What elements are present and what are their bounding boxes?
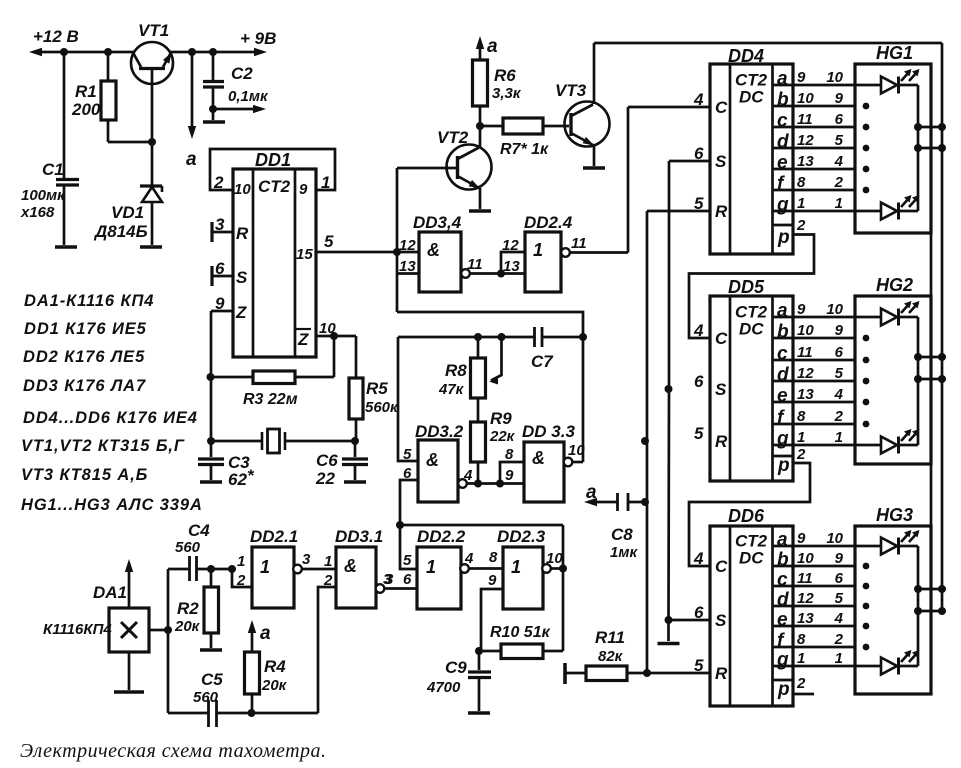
svg-text:13: 13 — [797, 386, 814, 403]
svg-text:4: 4 — [464, 550, 474, 567]
svg-text:Д814Б: Д814Б — [93, 222, 148, 241]
svg-text:HG3: HG3 — [876, 505, 913, 525]
svg-text:12: 12 — [797, 132, 814, 149]
svg-text:9: 9 — [797, 69, 806, 86]
capacitor C9 — [478, 651, 481, 670]
svg-text:R5: R5 — [366, 379, 388, 398]
svg-text:CT2: CT2 — [258, 177, 291, 196]
svg-text:p: p — [777, 455, 790, 476]
node wiper tap — [498, 333, 506, 341]
node C1 tap — [60, 48, 68, 56]
svg-text:DC: DC — [739, 549, 764, 568]
svg-text:DD2 К176 ЛЕ5: DD2 К176 ЛЕ5 — [23, 348, 145, 366]
IC DD1 outline — [233, 169, 316, 357]
svg-text:9: 9 — [797, 301, 806, 318]
svg-text:9: 9 — [505, 467, 514, 484]
svg-text:b: b — [777, 90, 789, 111]
svg-text:R7* 1к: R7* 1к — [500, 141, 549, 158]
svg-text:R4: R4 — [264, 657, 286, 676]
svg-text:DD 3.3: DD 3.3 — [522, 422, 575, 441]
resistor R4 — [245, 652, 260, 694]
svg-text:5: 5 — [403, 446, 412, 463]
svg-text:12: 12 — [399, 237, 416, 254]
svg-text:e: e — [777, 153, 788, 174]
wire R bus — [646, 211, 649, 673]
svg-text:9: 9 — [488, 572, 497, 589]
resistor R5 — [349, 378, 363, 419]
capacitor C2 — [212, 52, 215, 80]
node C2 out — [209, 105, 217, 113]
wire right supply bus — [941, 43, 944, 611]
svg-text:+ 9В: + 9В — [240, 29, 276, 48]
wire DD2.1 pin2 tie — [232, 569, 252, 587]
svg-text:1: 1 — [835, 429, 843, 446]
svg-text:10: 10 — [797, 322, 814, 339]
capacitor C4 — [168, 568, 189, 571]
ground C1 — [55, 245, 77, 249]
gate DD2.3 output — [542, 564, 551, 573]
ground C6 — [344, 480, 366, 484]
svg-text:1мк: 1мк — [610, 544, 638, 561]
svg-text:2: 2 — [796, 675, 806, 692]
wire DD2.3 pin9 — [481, 589, 503, 651]
svg-text:6: 6 — [694, 372, 704, 391]
svg-text:47к: 47к — [438, 381, 465, 398]
svg-text:&: & — [344, 556, 357, 576]
svg-text:1: 1 — [511, 557, 521, 577]
svg-text:8: 8 — [505, 446, 514, 463]
svg-text:4: 4 — [834, 386, 844, 403]
wire feedback line y525 — [400, 524, 563, 527]
svg-text:62: 62 — [228, 470, 247, 489]
svg-text:C: C — [715, 98, 728, 117]
wire DD4 S pin — [669, 160, 710, 163]
node R2 top — [207, 565, 215, 573]
svg-text:82к: 82к — [598, 648, 624, 665]
svg-text:560: 560 — [175, 539, 201, 556]
svg-text:1: 1 — [797, 195, 805, 212]
svg-text:1: 1 — [237, 553, 245, 570]
svg-text:a: a — [777, 530, 788, 551]
svg-text:DC: DC — [739, 88, 764, 107]
ground C3 — [200, 480, 222, 484]
svg-text:9: 9 — [835, 550, 844, 567]
gate DD3.4 output — [461, 269, 470, 278]
ground VD1 — [140, 245, 162, 249]
svg-text:4700: 4700 — [426, 679, 461, 696]
svg-text:VT3: VT3 — [555, 81, 587, 100]
svg-text:1: 1 — [797, 650, 805, 667]
svg-text:12: 12 — [797, 365, 814, 382]
gate DD2.4 — [525, 232, 561, 292]
svg-text:8: 8 — [489, 549, 498, 566]
svg-text:a: a — [186, 149, 197, 170]
wire DD4 carry p to DD5 C — [689, 235, 814, 339]
wire +12V rail with arrow — [29, 48, 42, 56]
svg-text:9: 9 — [215, 294, 225, 313]
svg-text:R2: R2 — [177, 599, 199, 618]
svg-text:4: 4 — [693, 321, 704, 340]
wire DD1 pin15 to DD3.4 — [316, 251, 419, 254]
IC DD6 counter — [710, 526, 793, 706]
svg-text:d: d — [777, 590, 789, 611]
svg-text:C: C — [715, 557, 728, 576]
wire DD4 R pin — [647, 210, 710, 213]
svg-text:e: e — [777, 386, 788, 407]
svg-text:S: S — [715, 380, 727, 399]
svg-text:DD2.4: DD2.4 — [524, 213, 573, 232]
svg-text:4: 4 — [693, 549, 704, 568]
svg-text:1: 1 — [835, 195, 843, 212]
ground S bus — [658, 642, 680, 646]
svg-text:К1116КП4: К1116КП4 — [43, 621, 112, 638]
svg-text:11: 11 — [467, 256, 483, 273]
svg-text:a: a — [777, 301, 788, 322]
ground VT2 — [469, 209, 491, 213]
svg-text:10: 10 — [546, 550, 563, 567]
ground C2 — [203, 120, 225, 124]
svg-text:R9: R9 — [490, 409, 512, 428]
svg-text:5: 5 — [694, 656, 704, 675]
svg-text:11: 11 — [797, 111, 813, 128]
svg-text:13: 13 — [797, 610, 814, 627]
svg-text:20к: 20к — [174, 618, 201, 635]
wire DD4 C pin — [628, 106, 710, 109]
svg-text:5: 5 — [835, 590, 844, 607]
resistor R2 — [210, 569, 213, 587]
svg-text:6: 6 — [835, 111, 844, 128]
gate DD3.3 — [524, 442, 564, 502]
svg-text:11: 11 — [797, 570, 813, 587]
svg-text:Z: Z — [235, 303, 247, 322]
svg-text:2: 2 — [796, 217, 806, 234]
svg-text:R6: R6 — [494, 66, 516, 85]
wire DD2.3 out down — [562, 569, 565, 652]
svg-text:2: 2 — [834, 631, 844, 648]
svg-text:R11: R11 — [595, 628, 625, 647]
svg-text:3,3к: 3,3к — [492, 85, 522, 102]
wire DD5 R junction — [641, 437, 649, 445]
svg-text:g: g — [776, 429, 789, 450]
svg-text:c: c — [777, 111, 788, 132]
wire top +supply from VT3 — [594, 42, 942, 45]
svg-text:C7: C7 — [531, 352, 554, 371]
svg-text:g: g — [776, 650, 789, 671]
display HG1 — [855, 64, 931, 233]
resistor R8 trimmer — [477, 337, 480, 358]
svg-text:VT1: VT1 — [138, 21, 169, 40]
gate DD2.1 output — [293, 565, 302, 574]
wire Zbar out — [316, 335, 356, 338]
svg-text:11: 11 — [571, 235, 587, 252]
svg-text:22к: 22к — [489, 428, 516, 445]
svg-text:C6: C6 — [316, 451, 338, 470]
gate DD2.2 — [417, 547, 461, 609]
svg-text:200: 200 — [71, 100, 101, 119]
svg-text:DD2.1: DD2.1 — [250, 527, 298, 546]
svg-text:5: 5 — [403, 552, 412, 569]
gate DD3.2 output — [458, 479, 467, 488]
wire R1 to VT1 base — [108, 141, 152, 144]
svg-text:C5: C5 — [201, 670, 223, 689]
svg-text:10: 10 — [797, 90, 814, 107]
svg-text:&: & — [532, 448, 545, 468]
svg-text:Z: Z — [297, 330, 309, 349]
wire DD6 p stub — [793, 693, 814, 696]
svg-text:S: S — [715, 611, 727, 630]
svg-text:5: 5 — [694, 424, 704, 443]
wire VT2 base — [397, 167, 456, 170]
svg-text:HG1...HG3 АЛС 339А: HG1...HG3 АЛС 339А — [21, 496, 203, 514]
capacitor C8 with net a arrow — [584, 498, 597, 506]
IC DD5 counter — [710, 296, 793, 481]
gate DD3.2 — [418, 440, 458, 502]
gate DD3.1 — [336, 547, 376, 608]
svg-text:DA1: DA1 — [93, 583, 127, 602]
resistor R1 — [107, 52, 110, 81]
wire S bus — [668, 161, 671, 389]
multiplier DA1 — [109, 608, 149, 652]
svg-text:1: 1 — [835, 650, 843, 667]
wire DD2.4 out up to DD4 C — [627, 107, 630, 253]
svg-text:22: 22 — [315, 469, 335, 488]
svg-text:VT1,VT2 КТ315 Б,Г: VT1,VT2 КТ315 Б,Г — [21, 437, 185, 455]
svg-text:6: 6 — [835, 570, 844, 587]
svg-text:1: 1 — [321, 173, 330, 192]
svg-text:1: 1 — [533, 240, 543, 260]
svg-text:a: a — [260, 623, 271, 644]
svg-text:10: 10 — [826, 301, 843, 318]
svg-text:a: a — [777, 69, 788, 90]
svg-text:C2: C2 — [231, 64, 253, 83]
transistor VT1 — [131, 42, 173, 84]
svg-text:R: R — [715, 664, 728, 683]
wire DD3.4 pin13 — [397, 272, 419, 275]
svg-text:DD5: DD5 — [728, 277, 765, 297]
wire DD6 S pin — [669, 619, 711, 622]
svg-text:p: p — [777, 227, 790, 248]
svg-text:10: 10 — [826, 530, 843, 547]
svg-text:e: e — [777, 610, 788, 631]
svg-text:1: 1 — [426, 557, 436, 577]
svg-text:0,1мк: 0,1мк — [228, 88, 269, 105]
svg-text:8: 8 — [797, 631, 806, 648]
node R6-R7-VT2 — [476, 122, 484, 130]
svg-text:DD3,4: DD3,4 — [413, 213, 462, 232]
resistor R11 — [563, 663, 567, 684]
svg-text:13: 13 — [797, 153, 814, 170]
wire DD5 carry p to DD6 C — [689, 463, 810, 566]
svg-text:3: 3 — [385, 571, 394, 588]
svg-text:3: 3 — [302, 551, 311, 568]
svg-text:2: 2 — [236, 572, 246, 589]
svg-text:9: 9 — [797, 530, 806, 547]
svg-text:R3 22м: R3 22м — [243, 391, 298, 408]
wire line A — [397, 312, 583, 337]
svg-text:6: 6 — [835, 344, 844, 361]
svg-text:DD2.2: DD2.2 — [417, 527, 466, 546]
wire C2 arrow out — [213, 108, 262, 111]
svg-text:100мк: 100мк — [21, 187, 66, 204]
wire DA1 down — [128, 652, 131, 690]
svg-text:HG1: HG1 — [876, 43, 913, 63]
node a-branch — [188, 48, 196, 56]
wire DD3.3 pin8 tie — [500, 462, 524, 484]
wire display common bus — [930, 233, 933, 296]
svg-text:6: 6 — [403, 465, 412, 482]
svg-text:9: 9 — [835, 90, 844, 107]
svg-text:2: 2 — [834, 408, 844, 425]
node R8 top — [474, 333, 482, 341]
pin 9 Z input — [211, 310, 233, 313]
transistor VT3 — [565, 102, 610, 147]
pin 6 S input — [210, 266, 213, 286]
svg-text:DD3.1: DD3.1 — [335, 527, 383, 546]
svg-text:8: 8 — [797, 174, 806, 191]
svg-text:12: 12 — [502, 237, 519, 254]
svg-text:DD6: DD6 — [728, 506, 765, 526]
capacitor C5 — [207, 700, 210, 727]
capacitor C3 — [210, 441, 213, 457]
wire line B — [398, 337, 534, 461]
svg-text:HG2: HG2 — [876, 275, 913, 295]
capacitor C1 — [63, 52, 66, 178]
svg-text:Электрическая схема тахометр: Электрическая схема тахометра. — [20, 740, 327, 762]
wire DD3.1 pin2 — [318, 587, 336, 713]
wire DD2.4 pin12 — [501, 252, 525, 274]
wire Zbar to R5 — [355, 336, 358, 378]
svg-text:560к: 560к — [365, 399, 399, 416]
svg-text:10: 10 — [234, 181, 251, 198]
svg-text:DD4: DD4 — [728, 46, 764, 66]
svg-text:R: R — [236, 224, 249, 243]
gate DD3.1 output — [376, 584, 385, 593]
net arrow DA1 input — [128, 563, 131, 608]
svg-text:b: b — [777, 322, 789, 343]
svg-text:4: 4 — [834, 153, 844, 170]
svg-text:d: d — [777, 365, 789, 386]
svg-text:DA1-К1116 КП4: DA1-К1116 КП4 — [24, 292, 154, 310]
wire DD1 pin2 to pin1 loop — [210, 149, 335, 190]
wire Zbar to R3 — [333, 336, 336, 377]
gate DD2.1 — [252, 547, 294, 608]
svg-text:3: 3 — [215, 215, 225, 234]
display HG2 — [855, 296, 931, 464]
net a arrow (R6) — [479, 40, 482, 60]
capacitor C6 — [354, 441, 357, 457]
svg-text:DD1: DD1 — [255, 150, 291, 170]
wire +9V rail with arrow — [170, 51, 263, 54]
svg-text:6: 6 — [403, 571, 412, 588]
zener diode VD1 — [151, 142, 154, 186]
svg-text:VD1: VD1 — [111, 203, 144, 222]
svg-text:20к: 20к — [261, 677, 288, 694]
svg-text:1: 1 — [797, 429, 805, 446]
gate DD2.4 output — [561, 248, 570, 257]
svg-text:11: 11 — [797, 344, 813, 361]
svg-text:DD3 К176 ЛА7: DD3 К176 ЛА7 — [23, 377, 146, 395]
wire Z input down — [210, 311, 213, 441]
net a arrow (R4) — [251, 624, 254, 652]
svg-text:13: 13 — [503, 258, 520, 275]
svg-text:1: 1 — [324, 553, 332, 570]
svg-text:g: g — [776, 195, 789, 216]
svg-text:560: 560 — [193, 689, 219, 706]
svg-text:VT2: VT2 — [437, 128, 469, 147]
svg-text:c: c — [777, 344, 788, 365]
svg-text:4: 4 — [463, 467, 473, 484]
wire DD3.2 pin6 — [400, 480, 418, 525]
wire C5 line — [168, 712, 208, 715]
svg-text:10: 10 — [797, 550, 814, 567]
svg-text:a: a — [487, 36, 498, 57]
svg-text:VT3 КТ815 А,Б: VT3 КТ815 А,Б — [21, 466, 148, 484]
svg-text:c: c — [777, 570, 788, 591]
net a arrow (top) — [191, 52, 194, 135]
gate DD2.2 output — [460, 564, 469, 573]
svg-text:R10 51к: R10 51к — [490, 624, 551, 641]
svg-text:2: 2 — [796, 446, 806, 463]
svg-text:10: 10 — [826, 69, 843, 86]
svg-text:DD3.2: DD3.2 — [415, 422, 464, 441]
svg-text:DD1 К176 ИЕ5: DD1 К176 ИЕ5 — [24, 320, 147, 338]
svg-text:d: d — [777, 132, 789, 153]
svg-text:6: 6 — [215, 259, 225, 278]
crystal resonator — [211, 440, 262, 443]
gate DD2.3 — [503, 547, 543, 609]
svg-text:C1: C1 — [42, 160, 64, 179]
svg-text:5: 5 — [324, 232, 334, 251]
svg-text:p: p — [777, 679, 790, 700]
svg-text:C8: C8 — [611, 525, 633, 544]
svg-text:2: 2 — [213, 173, 224, 192]
capacitor C7 — [533, 327, 536, 347]
wire bus from VT2 base down — [396, 168, 399, 312]
ground R2 — [200, 648, 222, 652]
svg-text:a: a — [586, 482, 597, 503]
svg-text:DD2.3: DD2.3 — [497, 527, 546, 546]
svg-text:15: 15 — [296, 246, 313, 263]
svg-text:R8: R8 — [445, 361, 467, 380]
wire DD5 S junction — [665, 385, 673, 393]
svg-text:5: 5 — [835, 365, 844, 382]
wire DA1 out — [149, 629, 168, 632]
svg-text:9: 9 — [299, 181, 308, 198]
ground VT3 — [583, 166, 605, 170]
svg-text:C9: C9 — [445, 658, 467, 677]
svg-text:C4: C4 — [188, 521, 210, 540]
svg-text:4: 4 — [834, 610, 844, 627]
resistor R10 — [543, 650, 563, 653]
svg-text:2: 2 — [834, 174, 844, 191]
gate DD3.4 — [419, 232, 461, 292]
node R1 tap — [104, 48, 112, 56]
svg-text:&: & — [427, 240, 440, 260]
IC DD4 counter — [710, 64, 793, 254]
svg-text:DD4...DD6 К176 ИЕ4: DD4...DD6 К176 ИЕ4 — [23, 409, 198, 427]
display HG3 — [855, 526, 931, 694]
svg-text:S: S — [236, 268, 248, 287]
transistor VT2 — [447, 145, 492, 190]
gate DD3.3 output — [564, 458, 573, 467]
node C2 tap — [209, 48, 217, 56]
wire node to DD2.2 pin5 — [400, 525, 417, 569]
svg-text:C: C — [715, 329, 728, 348]
svg-text:b: b — [777, 550, 789, 571]
svg-text:8: 8 — [797, 408, 806, 425]
svg-text:1: 1 — [260, 557, 270, 577]
svg-text:S: S — [715, 152, 727, 171]
